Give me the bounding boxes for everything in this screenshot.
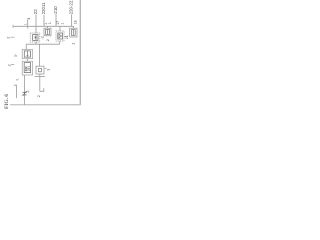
- label dash left of box F: [11, 64, 14, 66]
- svg-text:4: 4: [27, 18, 31, 20]
- wire right page border: [79, 0, 81, 105]
- svg-text:220-221: 220-221: [68, 0, 73, 14]
- label arrow dash left mid: [11, 36, 15, 38]
- component triangle in box B: [59, 34, 62, 38]
- svg-text:210: 210: [53, 6, 58, 14]
- wire dropper D2: [35, 15, 37, 27]
- wire box A to mid link: [35, 42, 37, 44]
- component box C inner: [71, 30, 75, 36]
- label text lines inside box F: [24, 66, 31, 72]
- block box E dashed: [22, 49, 32, 58]
- svg-text:18: 18: [73, 20, 77, 24]
- wire dropper D3: [43, 15, 45, 26]
- svg-text:-2: -2: [40, 36, 44, 39]
- wire mark in box C: [72, 30, 74, 36]
- svg-text:2: 2: [37, 95, 41, 97]
- svg-text:2: 2: [7, 37, 11, 39]
- wire dropper D1: [27, 20, 29, 29]
- svg-text:2: 2: [7, 64, 11, 66]
- block box D: [44, 28, 51, 36]
- wire mid link down to box E: [25, 44, 27, 49]
- wire stub bus to box B: [59, 26, 61, 31]
- svg-text:2: 2: [26, 91, 30, 93]
- transistor Q1: [22, 91, 26, 95]
- svg-text:FIG. 6: FIG. 6: [4, 94, 10, 109]
- component box E inner: [24, 51, 30, 57]
- wire box G down: [39, 74, 41, 91]
- wire top bus: [13, 25, 74, 27]
- svg-text:231: 231: [27, 66, 31, 71]
- label dash right of box G: [45, 68, 47, 70]
- block box G: [36, 66, 44, 74]
- label dash right of box B: [64, 36, 66, 38]
- wire hook bottom: [40, 88, 44, 91]
- svg-text:22011: 22011: [41, 2, 46, 14]
- svg-text:3: 3: [46, 69, 50, 71]
- svg-text:21: 21: [65, 35, 69, 39]
- wire dropper D5: [71, 15, 73, 27]
- component box D inner: [46, 30, 50, 35]
- wire stub bus to box D: [47, 26, 49, 28]
- node bus left end tick: [12, 25, 14, 28]
- block box C: [70, 28, 77, 37]
- component box A inner: [33, 35, 38, 41]
- node dot in box A: [35, 37, 37, 39]
- wire box F down to Q1: [24, 75, 26, 105]
- svg-text:22: 22: [33, 9, 38, 14]
- wire mark in box D: [47, 30, 49, 35]
- wire base feed corner: [14, 85, 17, 98]
- component mark in box G: [39, 68, 42, 71]
- wire branch down to box G: [39, 44, 41, 66]
- svg-text:2: 2: [72, 43, 76, 45]
- component box F inner with text: [24, 63, 30, 73]
- svg-text:17: 17: [56, 21, 60, 25]
- wire stub bus to box C: [73, 26, 75, 28]
- wire box B to mid link: [59, 41, 61, 44]
- block box B dashed: [56, 31, 64, 41]
- svg-text:1: 1: [61, 23, 65, 25]
- node T bar under box G: [35, 76, 45, 78]
- wire bottom rule: [10, 104, 81, 106]
- wire through box A: [35, 35, 37, 41]
- block box A dashed: [30, 33, 40, 42]
- component box B inner oscillator: [58, 33, 63, 39]
- svg-text:1.: 1.: [48, 21, 52, 24]
- wire stub bus to box A: [35, 26, 37, 33]
- svg-text:2: 2: [46, 39, 50, 41]
- wire mid link: [26, 43, 60, 45]
- wire box E to box F: [26, 59, 28, 62]
- wire dropper D4: [55, 14, 57, 27]
- svg-text:t.: t.: [16, 78, 20, 80]
- wire mark in box E: [26, 51, 28, 57]
- page background: [0, 0, 82, 120]
- block box F dashed: [22, 61, 32, 75]
